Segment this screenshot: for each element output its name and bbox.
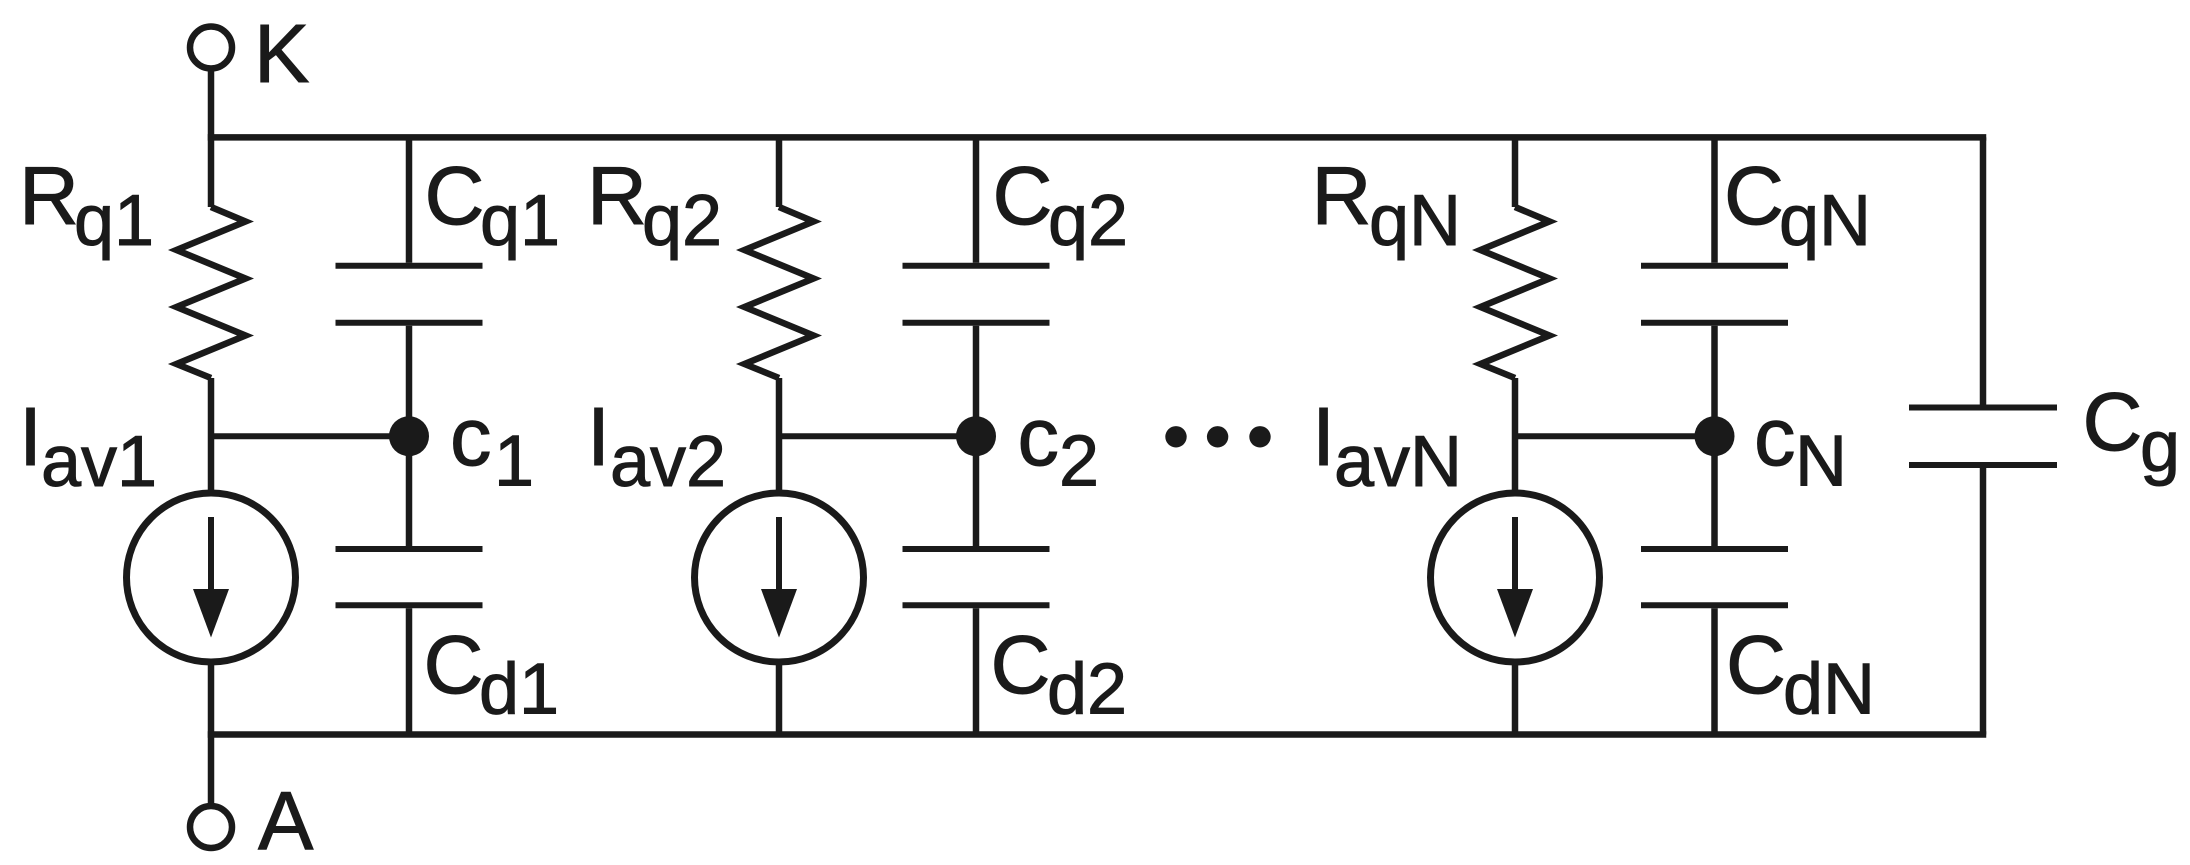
svg-text:q1: q1 — [74, 181, 154, 261]
svg-text:q2: q2 — [642, 181, 722, 261]
svg-text:1: 1 — [494, 422, 534, 502]
svg-text:av1: av1 — [41, 422, 157, 502]
svg-text:C: C — [1726, 618, 1786, 711]
svg-text:2: 2 — [1059, 422, 1099, 502]
svg-text:A: A — [258, 774, 314, 865]
svg-text:avN: avN — [1334, 422, 1462, 502]
svg-text:I: I — [587, 390, 610, 483]
svg-text:R: R — [1312, 149, 1372, 242]
svg-text:g: g — [2140, 407, 2180, 487]
svg-text:R: R — [19, 149, 79, 242]
svg-text:av2: av2 — [610, 422, 726, 502]
svg-text:N: N — [1795, 422, 1847, 502]
svg-text:R: R — [587, 149, 647, 242]
svg-text:I: I — [1312, 390, 1335, 483]
svg-text:K: K — [254, 7, 309, 100]
svg-text:c: c — [1754, 390, 1796, 483]
svg-text:C: C — [1724, 149, 1784, 242]
svg-text:qN: qN — [1369, 181, 1461, 261]
svg-text:I: I — [19, 390, 42, 483]
svg-text:C: C — [425, 149, 485, 242]
svg-text:C: C — [993, 149, 1053, 242]
svg-text:C: C — [424, 618, 484, 711]
svg-text:qN: qN — [1779, 181, 1871, 261]
svg-text:C: C — [2083, 375, 2143, 468]
svg-text:dN: dN — [1783, 650, 1875, 730]
svg-text:d2: d2 — [1047, 650, 1127, 730]
svg-text:c: c — [450, 390, 492, 483]
svg-text:C: C — [991, 618, 1051, 711]
svg-text:q2: q2 — [1048, 181, 1128, 261]
svg-text:c: c — [1018, 390, 1060, 483]
svg-text:d1: d1 — [479, 650, 559, 730]
svg-text:q1: q1 — [480, 181, 560, 261]
